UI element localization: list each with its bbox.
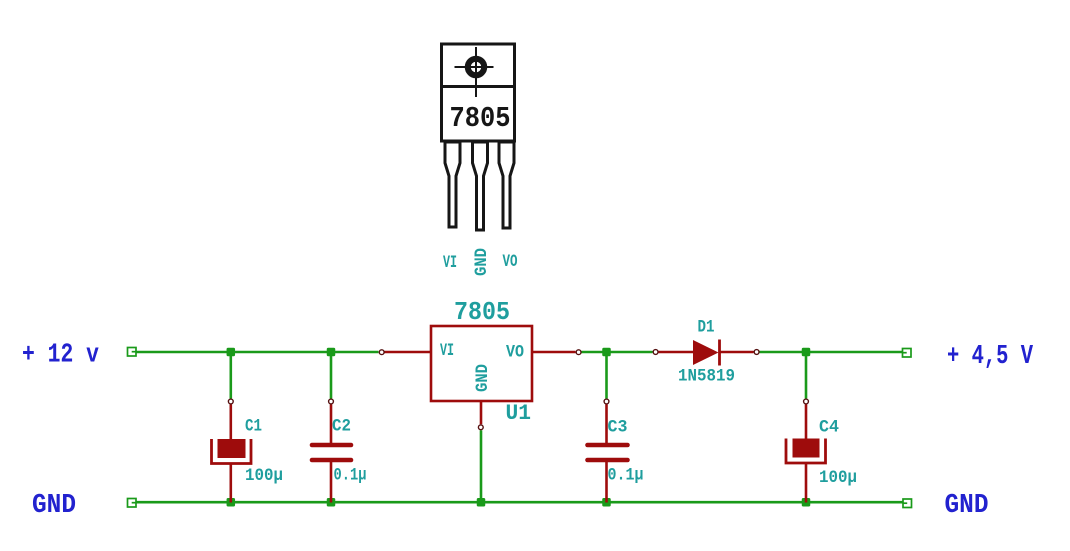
wire U1 VO ring to diode ring: [582, 351, 653, 354]
package mounting hole with crosshair: [455, 47, 494, 97]
svg-text:C2: C2: [332, 417, 351, 437]
wire bottom GND rail: [136, 501, 903, 504]
capacitor C4 plate (polarized): [793, 439, 820, 458]
pin ring U1 VI: [379, 350, 384, 355]
diode D1 anode pin wire: [659, 351, 694, 354]
wire C2 branch down: [330, 352, 333, 399]
capacitor C2 bottom plate: [312, 458, 351, 463]
capacitor C4 top pin wire: [805, 405, 808, 439]
diode D1 cathode bar: [718, 340, 721, 366]
svg-text:100µ: 100µ: [819, 468, 857, 488]
package leg 3 (VO): [499, 142, 514, 228]
junction top at C1: [227, 348, 236, 357]
svg-text:VO: VO: [506, 343, 524, 363]
pin ring D1 cathode: [754, 350, 759, 355]
svg-text:7805: 7805: [450, 102, 511, 135]
svg-text:GND: GND: [32, 491, 76, 521]
capacitor C3 top pin wire: [605, 405, 608, 445]
diode D1 triangle: [693, 340, 719, 365]
terminal square GND left: [128, 499, 137, 508]
junction bottom at C1: [227, 498, 236, 507]
svg-text:GND: GND: [473, 364, 493, 392]
terminal square +4,5V: [903, 349, 912, 358]
svg-text:0.1µ: 0.1µ: [608, 466, 644, 486]
junction bottom at C2: [327, 498, 336, 507]
capacitor C2 bottom pin wire: [330, 461, 333, 503]
capacitor C3 bottom plate: [588, 458, 628, 463]
pin ring C4 top: [804, 399, 809, 404]
wire top rail left (terminal to U1 VI pin ring): [136, 351, 379, 354]
U1 pin GND wire: [480, 401, 483, 424]
package U1 TO-220 body outline: [440, 44, 515, 141]
U1 pin VO wire: [532, 351, 576, 354]
svg-text:+ 12 v: + 12 v: [22, 341, 99, 371]
svg-text:GND: GND: [472, 248, 492, 276]
svg-text:VI: VI: [443, 253, 457, 273]
svg-text:C3: C3: [608, 418, 628, 438]
capacitor C1 bottom electrode bracket: [212, 439, 252, 464]
package leg 1 (VI): [445, 142, 460, 227]
pin ring U1 GND: [478, 425, 483, 430]
svg-text:C1: C1: [245, 417, 262, 437]
svg-text:C4: C4: [819, 418, 839, 438]
svg-text:U1: U1: [506, 401, 532, 426]
pin ring C3 top: [604, 399, 609, 404]
capacitor C4 bottom pin wire: [805, 463, 808, 503]
regulator U1 box: [431, 326, 532, 401]
diode D1 cathode pin wire: [721, 351, 754, 354]
junction top at C3: [602, 348, 611, 357]
capacitor C2 top plate: [312, 443, 351, 448]
pin ring C2 top: [329, 399, 334, 404]
wire U1 GND pin ring to bottom rail: [480, 430, 483, 502]
pin ring D1 anode: [653, 350, 658, 355]
capacitor C1 plate (polarized): [218, 439, 246, 458]
wire diode ring to +4,5V terminal: [760, 351, 904, 354]
svg-text:VI: VI: [440, 341, 454, 361]
junction bottom at U1 GND: [477, 498, 486, 507]
svg-text:VO: VO: [503, 252, 518, 272]
junction top at C4: [802, 348, 811, 357]
svg-text:D1: D1: [698, 318, 715, 338]
svg-text:7805: 7805: [454, 297, 510, 327]
svg-text:1N5819: 1N5819: [678, 367, 735, 387]
wire C4 branch down: [805, 352, 808, 399]
wire C3 branch down: [605, 352, 608, 399]
junction bottom at C4: [802, 498, 811, 507]
capacitor C3 bottom pin wire: [605, 461, 608, 503]
pin ring U1 VO: [576, 350, 581, 355]
svg-text:+ 4,5 V: + 4,5 V: [947, 342, 1034, 372]
capacitor C1 bottom pin wire: [230, 464, 233, 503]
svg-text:0.1µ: 0.1µ: [334, 466, 367, 486]
terminal square GND right: [903, 499, 912, 508]
U1 pin VI wire: [385, 351, 432, 354]
pin ring C1 top: [228, 399, 233, 404]
junction top at C2: [327, 348, 336, 357]
capacitor C3 top plate: [588, 443, 628, 448]
svg-text:100µ: 100µ: [245, 466, 283, 486]
junction bottom at C3: [602, 498, 611, 507]
capacitor C2 top pin wire: [330, 405, 333, 445]
svg-text:GND: GND: [945, 491, 989, 521]
package leg 2 (GND): [473, 142, 488, 230]
terminal square +12V: [128, 348, 137, 357]
capacitor C4 bottom electrode bracket: [786, 439, 826, 464]
wire C1 branch down: [230, 352, 233, 399]
capacitor C1 top pin wire: [230, 405, 233, 440]
